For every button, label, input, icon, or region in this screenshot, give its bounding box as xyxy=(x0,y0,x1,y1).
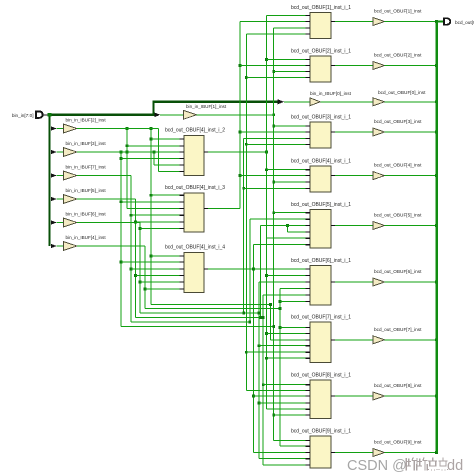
wire to middle LUT pin xyxy=(121,261,180,263)
svg-text:bcd_out_OBUF[7]_inst: bcd_out_OBUF[7]_inst xyxy=(374,327,422,332)
junction bcd_out[6] on output bus xyxy=(435,281,438,284)
net i_2 output xyxy=(208,151,267,153)
junction bcd_out[9] on output bus xyxy=(435,451,438,454)
bus tap arrow bit[5] xyxy=(51,197,57,202)
svg-text:bcd_out_OBUF[0]_inst: bcd_out_OBUF[0]_inst xyxy=(378,90,426,95)
bus tap arrow bit[2] xyxy=(51,126,57,131)
junction bcd_out[8] on output bus xyxy=(435,395,438,398)
wire to right LUT pin xyxy=(270,339,305,341)
buffer bcd_out_OBUF[2]_inst xyxy=(373,62,385,70)
wire port to bus junction xyxy=(43,114,48,116)
svg-text:bcd_out_OBUF[2]_inst_i_1: bcd_out_OBUF[2]_inst_i_1 xyxy=(291,49,351,55)
LUT bcd_out_OBUF[4]_inst_i_3 xyxy=(184,193,204,232)
wire channel-A vertical x=131.0 xyxy=(130,176,132,323)
wire channel-A vertical x=145.0 xyxy=(144,246,146,309)
net bin_in_IBUF[4] horizontal xyxy=(77,245,145,247)
wire to middle LUT pin xyxy=(121,201,180,203)
junction bcd_out[0] on output bus xyxy=(435,100,438,103)
LUT bcd_out_OBUF[2]_inst_i_1 xyxy=(310,56,331,82)
wire to middle LUT pin xyxy=(140,228,180,230)
svg-text:bcd_out_OBUF[4]_inst_i_1: bcd_out_OBUF[4]_inst_i_1 xyxy=(291,159,351,165)
wire channel-B vertical x=287.4 xyxy=(286,226,288,232)
buffer bcd_out_OBUF[3]_inst xyxy=(373,128,385,136)
net OBUF[4] to output bus xyxy=(385,175,437,177)
wire to right LUT pin xyxy=(267,333,306,335)
wire channel-B vertical x=270.4 xyxy=(269,305,271,340)
net bin_in_IBUF[7] horizontal xyxy=(77,175,131,177)
wire to right LUT pin xyxy=(274,181,306,183)
svg-text:bcd_out_OBUF[3]_inst: bcd_out_OBUF[3]_inst xyxy=(374,119,422,124)
svg-text:bcd_out_OBUF[4]_inst: bcd_out_OBUF[4]_inst xyxy=(374,163,422,168)
bus tap arrow bit[0] xyxy=(278,99,285,104)
svg-text:bcd_out_OBUF[7]_inst_i_1: bcd_out_OBUF[7]_inst_i_1 xyxy=(291,315,351,321)
net LUT[7] output to OBUF xyxy=(335,339,373,341)
LUT bcd_out_OBUF[6]_inst_i_1 xyxy=(310,266,331,306)
bus bin_in[7:0] vertical trunk on left xyxy=(48,115,50,246)
wire channel-B vertical x=243.7 xyxy=(243,138,245,313)
wire tap to IBUF[6] xyxy=(57,222,64,224)
wire channel-A vertical x=127.0 xyxy=(126,129,128,209)
svg-text:bcd_out_OBUF[9]_inst: bcd_out_OBUF[9]_inst xyxy=(374,440,422,445)
wire to right LUT pin xyxy=(240,21,306,23)
wire to right LUT pin xyxy=(267,275,306,277)
wire to right LUT pin xyxy=(259,345,306,347)
bus bcd_out[9:0] vertical trunk xyxy=(435,22,437,453)
LUT bcd_out_OBUF[4]_inst_i_2 xyxy=(184,136,204,176)
wire channel-A vertical x=158.5 xyxy=(158,129,160,172)
junction bcd_out[1] on output bus xyxy=(435,20,438,23)
bus tap arrow bit[1] xyxy=(155,113,161,118)
wire long run y=326.5 xyxy=(121,326,274,328)
net LUT[8] output to OBUF xyxy=(335,395,373,397)
junction bcd_out[4] on output bus xyxy=(435,174,438,177)
wire tap to IBUF[2] xyxy=(57,128,64,130)
wire to right LUT pin xyxy=(267,14,306,16)
wire to right LUT pin xyxy=(240,175,306,177)
wire to right LUT pin xyxy=(274,27,306,29)
net LUT[9] output to OBUF xyxy=(335,452,373,454)
buffer bcd_out_OBUF[6]_inst xyxy=(373,278,385,286)
buffer bcd_out_OBUF[4]_inst xyxy=(373,172,385,180)
wire to right LUT pin xyxy=(274,414,306,416)
wire to middle LUT pin xyxy=(136,221,180,223)
wire channel-B vertical x=266.5 xyxy=(266,15,268,409)
wire to right LUT pin xyxy=(280,288,306,290)
net bcd_out_OBUF[0] to output bus xyxy=(385,101,437,103)
wire to right LUT pin xyxy=(253,395,305,397)
wire channel-B vertical x=273.7 xyxy=(273,28,275,441)
buffer bcd_out_OBUF[5]_inst xyxy=(373,222,385,230)
LUT bcd_out_OBUF[7]_inst_i_1 xyxy=(310,322,331,363)
wire i_4 net through to OBUF[6] pin xyxy=(253,268,305,270)
wire to right LUT pin xyxy=(280,445,306,447)
net OBUF[7] to output bus xyxy=(385,339,437,341)
wire channel-B vertical x=253.4 xyxy=(252,245,254,453)
net OBUF[8] to output bus xyxy=(385,395,437,397)
svg-text:bin_in_IBUF[2]_inst: bin_in_IBUF[2]_inst xyxy=(66,118,107,123)
wire to right LUT pin xyxy=(240,65,306,67)
wire to right LUT pin xyxy=(267,237,306,239)
wire tap to IBUF[1] xyxy=(160,114,183,116)
wire to right LUT pin xyxy=(274,212,306,214)
wire to middle LUT pin xyxy=(159,170,180,172)
wire to right LUT pin xyxy=(259,281,306,283)
svg-text:bcd_out_OBUF[8]_inst: bcd_out_OBUF[8]_inst xyxy=(374,383,422,388)
wire to right LUT pin xyxy=(274,125,306,127)
wire channel-A vertical x=135.5 xyxy=(135,199,137,318)
buffer bin_in_IBUF[2]_inst xyxy=(64,124,78,133)
net LUT[4] output to OBUF xyxy=(335,175,373,177)
net bin_in_IBUF[3] horizontal xyxy=(77,151,154,153)
junction at bus split xyxy=(48,113,52,117)
wire to right LUT pin xyxy=(250,218,306,220)
wire channel-B vertical x=259.0 xyxy=(258,282,260,459)
wire channel-B vertical x=280.0 xyxy=(279,289,281,447)
wire channel-A vertical x=151.0 xyxy=(150,129,152,305)
wire to right LUT pin xyxy=(263,294,305,296)
buffer bin_in_IBUF[0]_inst xyxy=(310,98,320,106)
bus tap arrow bit[7] xyxy=(51,173,57,178)
wire to right LUT pin xyxy=(246,77,305,79)
wire to middle LUT pin xyxy=(131,268,180,270)
buffer bin_in_IBUF[7]_inst xyxy=(64,171,78,180)
buffer bin_in_IBUF[5]_inst xyxy=(64,195,78,204)
svg-text:bcd_out_OBUF[4]_inst_i_2: bcd_out_OBUF[4]_inst_i_2 xyxy=(165,127,225,133)
net i_4 output xyxy=(208,268,253,270)
bus tap arrow bit[6] xyxy=(51,220,57,225)
wire to right LUT pin xyxy=(253,244,305,246)
wire to middle LUT pin xyxy=(151,138,180,140)
wire to middle LUT pin xyxy=(154,164,180,166)
buffer bcd_out_OBUF[7]_inst xyxy=(373,336,385,344)
net bin_in_IBUF[0] to OBUF[0] xyxy=(321,101,374,103)
svg-text:bcd_out_OBUF[4]_inst_i_4: bcd_out_OBUF[4]_inst_i_4 xyxy=(165,244,225,250)
wire to middle LUT pin xyxy=(145,288,180,290)
wire to middle LUT pin xyxy=(140,281,180,283)
svg-text:bcd_out_OBUF[1]_inst_i_1: bcd_out_OBUF[1]_inst_i_1 xyxy=(291,5,351,11)
wire to right LUT pin xyxy=(253,452,305,454)
wire to right LUT pin xyxy=(280,301,306,303)
wire to right LUT pin xyxy=(261,225,306,227)
wire to middle LUT pin xyxy=(151,255,180,257)
junction bcd_out[7] on output bus xyxy=(435,338,438,341)
wire to right LUT pin xyxy=(274,71,306,73)
net bin_in_IBUF[5] horizontal xyxy=(77,198,136,200)
LUT bcd_out_OBUF[9]_inst_i_1 xyxy=(310,436,331,468)
wire to middle LUT pin xyxy=(127,145,180,147)
input port bin_in[7:0] xyxy=(36,111,43,118)
wire channel-B vertical x=240.0 xyxy=(239,22,241,209)
wire tap to IBUF[0] xyxy=(284,101,310,103)
wire to right LUT pin xyxy=(263,384,305,386)
wire to right LUT pin xyxy=(246,143,305,145)
net LUT[5] output to OBUF xyxy=(335,225,373,227)
LUT bcd_out_OBUF[5]_inst_i_1 xyxy=(310,210,331,249)
wire to right LUT pin xyxy=(246,390,305,392)
wire to right LUT pin xyxy=(246,33,305,35)
wire to middle LUT pin xyxy=(151,194,180,196)
wire to right LUT pin xyxy=(240,131,306,133)
wire long run y=304.5 xyxy=(151,304,270,306)
svg-text:bcd_out_OBUF[9]_inst_i_1: bcd_out_OBUF[9]_inst_i_1 xyxy=(291,429,351,435)
LUT bcd_out_OBUF[4]_inst_i_1 xyxy=(310,166,331,192)
wire channel-B vertical x=249.8 xyxy=(249,219,251,322)
net OBUF[2] to output bus xyxy=(385,65,437,67)
wire to right LUT pin xyxy=(267,59,306,61)
LUT bcd_out_OBUF[8]_inst_i_1 xyxy=(310,380,331,419)
svg-text:bcd_out_OBUF[2]_inst: bcd_out_OBUF[2]_inst xyxy=(374,53,422,58)
buffer bin_in_IBUF[4]_inst xyxy=(64,242,78,251)
wire bus to output port xyxy=(437,21,444,23)
wire to middle LUT pin xyxy=(121,158,180,160)
svg-text:bin_in[7:0]: bin_in[7:0] xyxy=(12,113,34,118)
svg-text:bin_in_IBUF[3]_inst: bin_in_IBUF[3]_inst xyxy=(66,141,107,146)
svg-text:bcd_out_OBUF[5]_inst: bcd_out_OBUF[5]_inst xyxy=(374,213,422,218)
wire to middle LUT pin xyxy=(127,208,180,210)
wire to right LUT pin xyxy=(263,464,305,466)
wire long run y=308.5 xyxy=(145,308,280,310)
svg-text:dd: dd xyxy=(447,458,463,474)
buffer bcd_out_OBUF[0]_inst xyxy=(373,98,385,106)
wire to right LUT pin xyxy=(280,327,306,329)
svg-text:bcd_out_OBUF[6]_inst_i_1: bcd_out_OBUF[6]_inst_i_1 xyxy=(291,258,351,264)
LUT bcd_out_OBUF[4]_inst_i_4 xyxy=(184,253,204,293)
junction bcd_out[3] on output bus xyxy=(435,131,438,134)
bus tap arrow bit[3] xyxy=(51,150,57,155)
net OBUF[1] to output bus xyxy=(385,21,437,23)
wire to right LUT pin xyxy=(267,169,306,171)
wire to right LUT pin xyxy=(259,402,306,404)
svg-text:bcd_out_OBUF[4]_inst_i_3: bcd_out_OBUF[4]_inst_i_3 xyxy=(165,185,225,191)
net bin_in_IBUF[2] horizontal xyxy=(77,128,159,130)
net OBUF[9] to output bus xyxy=(385,452,437,454)
wire tap to IBUF[3] xyxy=(57,151,64,153)
net OBUF[6] to output bus xyxy=(385,281,437,283)
wire to right LUT pin xyxy=(244,137,306,139)
svg-text:bcd_out_OBUF[6]_inst: bcd_out_OBUF[6]_inst xyxy=(374,269,422,274)
LUT bcd_out_OBUF[1]_inst_i_1 xyxy=(310,13,331,39)
wire to middle LUT pin xyxy=(127,151,180,153)
wire to middle LUT pin xyxy=(136,275,180,277)
net LUT[3] output to OBUF xyxy=(335,131,373,133)
wire channel-A vertical x=154.0 xyxy=(153,152,155,165)
net i_3 output xyxy=(208,208,240,210)
svg-text:bin_in_IBUF[4]_inst: bin_in_IBUF[4]_inst xyxy=(66,235,107,240)
bus bin_in[7:0] horizontal trunk xyxy=(48,102,278,115)
buffer bcd_out_OBUF[9]_inst xyxy=(373,449,385,457)
svg-text:bin_in_IBUF[5]_inst: bin_in_IBUF[5]_inst xyxy=(66,188,107,193)
wire to right LUT pin xyxy=(259,458,306,460)
net LUT[2] output to OBUF xyxy=(335,65,373,67)
wire to right LUT pin xyxy=(246,351,305,353)
wire tap to IBUF[4] xyxy=(57,245,64,247)
svg-text:bcd_out_OBUF[3]_inst_i_1: bcd_out_OBUF[3]_inst_i_1 xyxy=(291,115,351,121)
buffer bcd_out_OBUF[1]_inst xyxy=(373,18,385,26)
wire long run y=313.0 xyxy=(140,312,259,314)
wire long run y=317.5 xyxy=(136,317,264,319)
wire channel-A vertical x=121.0 xyxy=(120,152,122,327)
buffer bcd_out_OBUF[8]_inst xyxy=(373,392,385,400)
LUT bcd_out_OBUF[3]_inst_i_1 xyxy=(310,122,331,148)
wire tap to IBUF[7] xyxy=(57,175,64,177)
wire to right LUT pin xyxy=(287,231,305,233)
buffer bin_in_IBUF[3]_inst xyxy=(64,148,78,157)
svg-text:CSDN @: CSDN @ xyxy=(347,458,407,474)
svg-text:bcd_out[9:0]: bcd_out[9:0] xyxy=(455,20,474,25)
net bin_in_IBUF[1] to channel xyxy=(197,114,274,116)
output port bcd_out[9:0] xyxy=(444,18,450,24)
net OBUF[3] to output bus xyxy=(385,131,437,133)
wire long run y=322.0 xyxy=(131,321,250,323)
net bin_in_IBUF[6] horizontal xyxy=(77,222,140,224)
wire channel-B vertical x=263.2 xyxy=(262,295,264,465)
wire tap to IBUF[5] xyxy=(57,198,64,200)
wire channel-B vertical x=260.7 xyxy=(260,226,262,318)
net OBUF[5] to output bus xyxy=(385,225,437,227)
buffer bin_in_IBUF[1]_inst xyxy=(184,110,197,119)
wire channel-B vertical x=246.3 xyxy=(245,34,247,391)
buffer bin_in_IBUF[6]_inst xyxy=(64,218,78,227)
junction bcd_out[5] on output bus xyxy=(435,224,438,227)
svg-text:bin_in_IBUF[0]_inst: bin_in_IBUF[0]_inst xyxy=(310,91,352,96)
wire to right LUT pin xyxy=(244,187,306,189)
junction bcd_out[2] on output bus xyxy=(435,64,438,67)
bus tap arrow bit[4] xyxy=(51,244,57,249)
svg-text:bin_in_IBUF[1]_inst: bin_in_IBUF[1]_inst xyxy=(186,104,227,109)
wire to right LUT pin xyxy=(267,408,306,410)
svg-text:bcd_out_OBUF[5]_inst_i_1: bcd_out_OBUF[5]_inst_i_1 xyxy=(291,202,351,208)
wire channel-A vertical x=140.0 xyxy=(139,223,141,314)
wire to middle LUT pin xyxy=(131,214,180,216)
svg-text:bin_in_IBUF[6]_inst: bin_in_IBUF[6]_inst xyxy=(66,212,107,217)
net LUT[6] output to OBUF xyxy=(335,281,373,283)
wire to right LUT pin xyxy=(267,357,306,359)
wire to right LUT pin xyxy=(274,439,306,441)
svg-text:bcd_out_OBUF[1]_inst: bcd_out_OBUF[1]_inst xyxy=(374,9,422,14)
net LUT[1] output to OBUF xyxy=(335,21,373,23)
svg-text:bcd_out_OBUF[8]_inst_i_1: bcd_out_OBUF[8]_inst_i_1 xyxy=(291,373,351,379)
svg-text:bin_in_IBUF[7]_inst: bin_in_IBUF[7]_inst xyxy=(66,165,107,170)
